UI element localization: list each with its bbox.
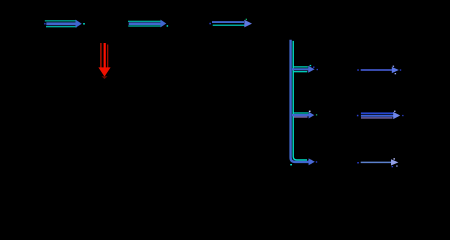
branch arrow B1 (tree, top): [292, 65, 318, 73]
arrow A3 (top-right blue/cyan double arrow): [209, 19, 252, 28]
right arrow R2 (middle, double-line): [357, 111, 404, 120]
right arrow R1 (top): [357, 66, 401, 75]
tree bracket: vertical connector with elbow (blue line): [291, 40, 309, 162]
branch arrow B2 (tree, middle): [292, 111, 317, 119]
branch arrow B3 head (tree, bottom elbow end): [308, 158, 317, 165]
arrow A1 (top-left blue double arrow): [44, 20, 85, 28]
cyan speck below elbow: [290, 164, 292, 165]
arrow A2 (top-middle blue double arrow): [128, 20, 168, 28]
right arrow R3 (bottom): [357, 158, 398, 167]
red down arrow: [98, 43, 110, 79]
tree bracket: vertical connector with elbow (cyan line): [293, 41, 307, 160]
